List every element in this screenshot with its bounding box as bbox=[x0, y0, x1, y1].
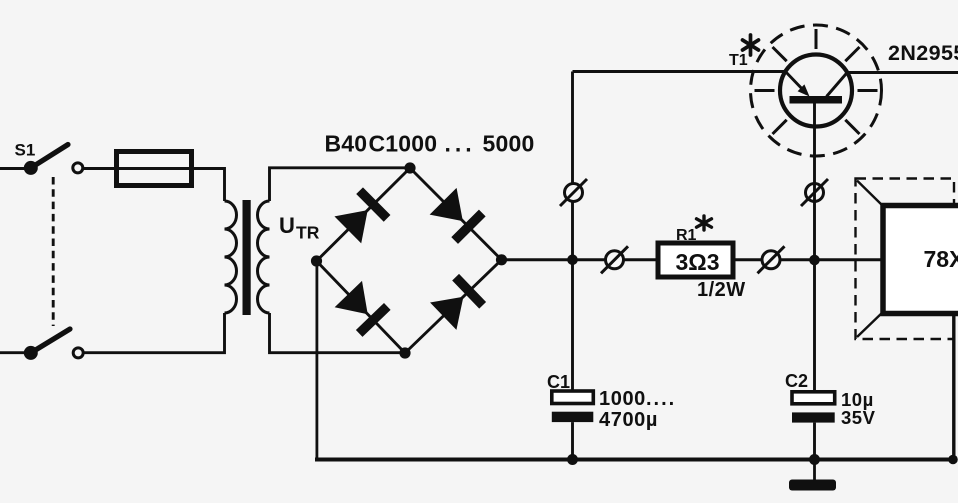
regulator case corner diagonal top-left bbox=[857, 181, 885, 208]
test point on C1 vertical bbox=[560, 179, 587, 206]
node bridge right vertex bbox=[496, 254, 507, 265]
node C2 at ground rail bbox=[809, 454, 820, 465]
capacitor C1 lower lead bbox=[571, 422, 574, 459]
switch S1 top contact bbox=[73, 163, 83, 173]
svg-text:4700µ: 4700µ bbox=[599, 409, 658, 431]
svg-text:....: .... bbox=[646, 388, 676, 410]
fuse F (rectangle over wire) bbox=[117, 152, 192, 186]
transistor T1 base lead down to rail bbox=[813, 104, 816, 392]
capacitor C2 lower lead bbox=[813, 423, 816, 460]
regulator case corner diagonal bottom-left bbox=[857, 311, 885, 338]
transformer secondary winding bbox=[258, 201, 270, 313]
capacitor C2 negative plate bbox=[792, 412, 835, 422]
test point on rail right of R1 bbox=[758, 246, 785, 273]
svg-text:U: U bbox=[279, 213, 295, 238]
transistor T1 body circle bbox=[780, 55, 852, 127]
capacitor C2 positive plate bbox=[792, 392, 835, 404]
node rail at C2/base bbox=[809, 255, 820, 266]
capacitor C1 positive plate bbox=[552, 391, 594, 404]
wire mains bottom left bbox=[0, 351, 31, 354]
regulator IC 78XX box bbox=[883, 206, 958, 314]
bridge diode D2 (top-right side) bbox=[429, 187, 485, 243]
resistor R1 box bbox=[658, 243, 733, 277]
node bridge bottom vertex bbox=[399, 347, 410, 358]
wire top to transistor emitter bbox=[573, 70, 786, 73]
svg-text:B40: B40 bbox=[325, 131, 368, 157]
bridge diode D4 (bottom-right side) bbox=[430, 274, 486, 330]
node bridge left vertex bbox=[311, 255, 322, 266]
transistor T1 radial dashes bbox=[755, 29, 878, 134]
transistor T1 base bar bbox=[790, 96, 843, 104]
transformer core bbox=[243, 200, 251, 315]
wire raw DC vertical at C1 bbox=[571, 72, 574, 392]
test point on rail left of R1 bbox=[601, 246, 628, 273]
svg-text:TR: TR bbox=[296, 223, 320, 243]
svg-text:T1: T1 bbox=[729, 52, 748, 69]
switch S1 top pole lever bbox=[31, 145, 68, 168]
asterisk at R1 bbox=[697, 216, 712, 230]
svg-text:S1: S1 bbox=[15, 141, 36, 160]
bridge rectifier side L-T bbox=[317, 168, 411, 261]
svg-text:1/2W: 1/2W bbox=[697, 279, 746, 301]
switch S1 mechanical link (dashed) bbox=[52, 177, 55, 326]
transformer primary winding bbox=[225, 201, 237, 313]
svg-text:2N2955: 2N2955 bbox=[888, 41, 958, 65]
svg-text:R1: R1 bbox=[676, 227, 697, 244]
capacitor C1 negative plate bbox=[552, 412, 594, 422]
svg-text:5000: 5000 bbox=[483, 131, 535, 157]
node rail at C1 bbox=[567, 254, 578, 265]
ground symbol bbox=[789, 480, 836, 491]
wire bridge minus down to ground rail bbox=[315, 261, 318, 460]
transistor T1 collector line bbox=[827, 73, 848, 97]
svg-text:C1: C1 bbox=[547, 372, 570, 392]
svg-text:3Ω3: 3Ω3 bbox=[675, 249, 719, 275]
switch S1 bottom pole lever bbox=[31, 329, 70, 353]
svg-text:C1000: C1000 bbox=[369, 131, 438, 157]
transistor T1 dashed case circle bbox=[751, 25, 882, 156]
bridge rectifier side L-B bbox=[317, 261, 406, 353]
switch S1 bottom contact bbox=[73, 348, 83, 358]
svg-text:78XX: 78XX bbox=[924, 246, 958, 272]
svg-text:C2: C2 bbox=[785, 371, 808, 391]
node C1 at ground rail bbox=[567, 454, 578, 465]
transistor T1 emitter arrow bbox=[798, 84, 810, 96]
bridge rectifier side T-R bbox=[410, 168, 502, 260]
wire transistor collector to right edge bbox=[847, 71, 958, 74]
regulator IC dashed case outline bbox=[856, 179, 955, 340]
transistor T1 emitter line bbox=[785, 72, 807, 95]
svg-text:35V: 35V bbox=[841, 407, 876, 428]
wire secondary top to bridge top vertex bbox=[270, 168, 411, 201]
wire mains top left bbox=[0, 167, 31, 170]
main positive rail bbox=[502, 258, 884, 261]
switch S1 bottom pole pivot bbox=[24, 346, 38, 360]
bridge diode D3 (left-bottom side) bbox=[334, 281, 390, 337]
wire secondary bottom to bridge bottom vertex bbox=[270, 313, 406, 353]
bridge rectifier side B-R bbox=[405, 260, 502, 353]
svg-text:...: ... bbox=[445, 131, 476, 157]
wire bottom contact to transformer primary bottom bbox=[83, 313, 224, 353]
switch S1 top pole pivot bbox=[24, 161, 38, 175]
svg-text:1000: 1000 bbox=[599, 388, 646, 410]
ground stub bbox=[813, 460, 816, 481]
asterisk at T1 bbox=[743, 35, 759, 55]
bridge diode D1 (left-top side) bbox=[334, 187, 390, 243]
node regulator ground at rail bbox=[948, 455, 958, 465]
regulator ground pin wire bbox=[952, 314, 955, 460]
wire contact to fuse and through fuse to transformer corner bbox=[83, 169, 225, 202]
ground rail (bottom) bbox=[315, 458, 956, 462]
node bridge top vertex bbox=[404, 162, 415, 173]
test point on base lead bbox=[801, 179, 828, 206]
